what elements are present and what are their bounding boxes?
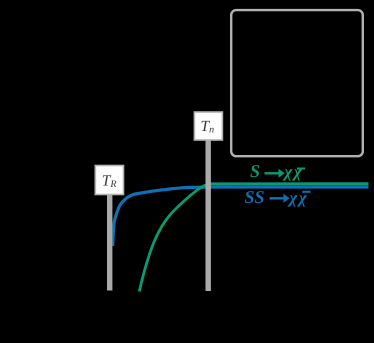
svg-text:χχ: χχ xyxy=(283,162,304,181)
gray bar T_R xyxy=(107,192,112,291)
label box T_R xyxy=(95,166,123,195)
green annotation: S -> chi chibar xyxy=(250,161,305,181)
gray bar T_n xyxy=(206,138,211,291)
svg-text:S: S xyxy=(250,161,260,181)
blue annotation: SS -> chi chibar xyxy=(245,187,311,207)
legend box (empty rounded rectangle) xyxy=(231,10,363,156)
svg-text:SS: SS xyxy=(245,187,265,207)
curve SS -> chi chibar (blue) xyxy=(113,187,369,246)
label box T_n xyxy=(194,112,222,140)
curve S -> chi chibar (green) xyxy=(139,184,368,292)
